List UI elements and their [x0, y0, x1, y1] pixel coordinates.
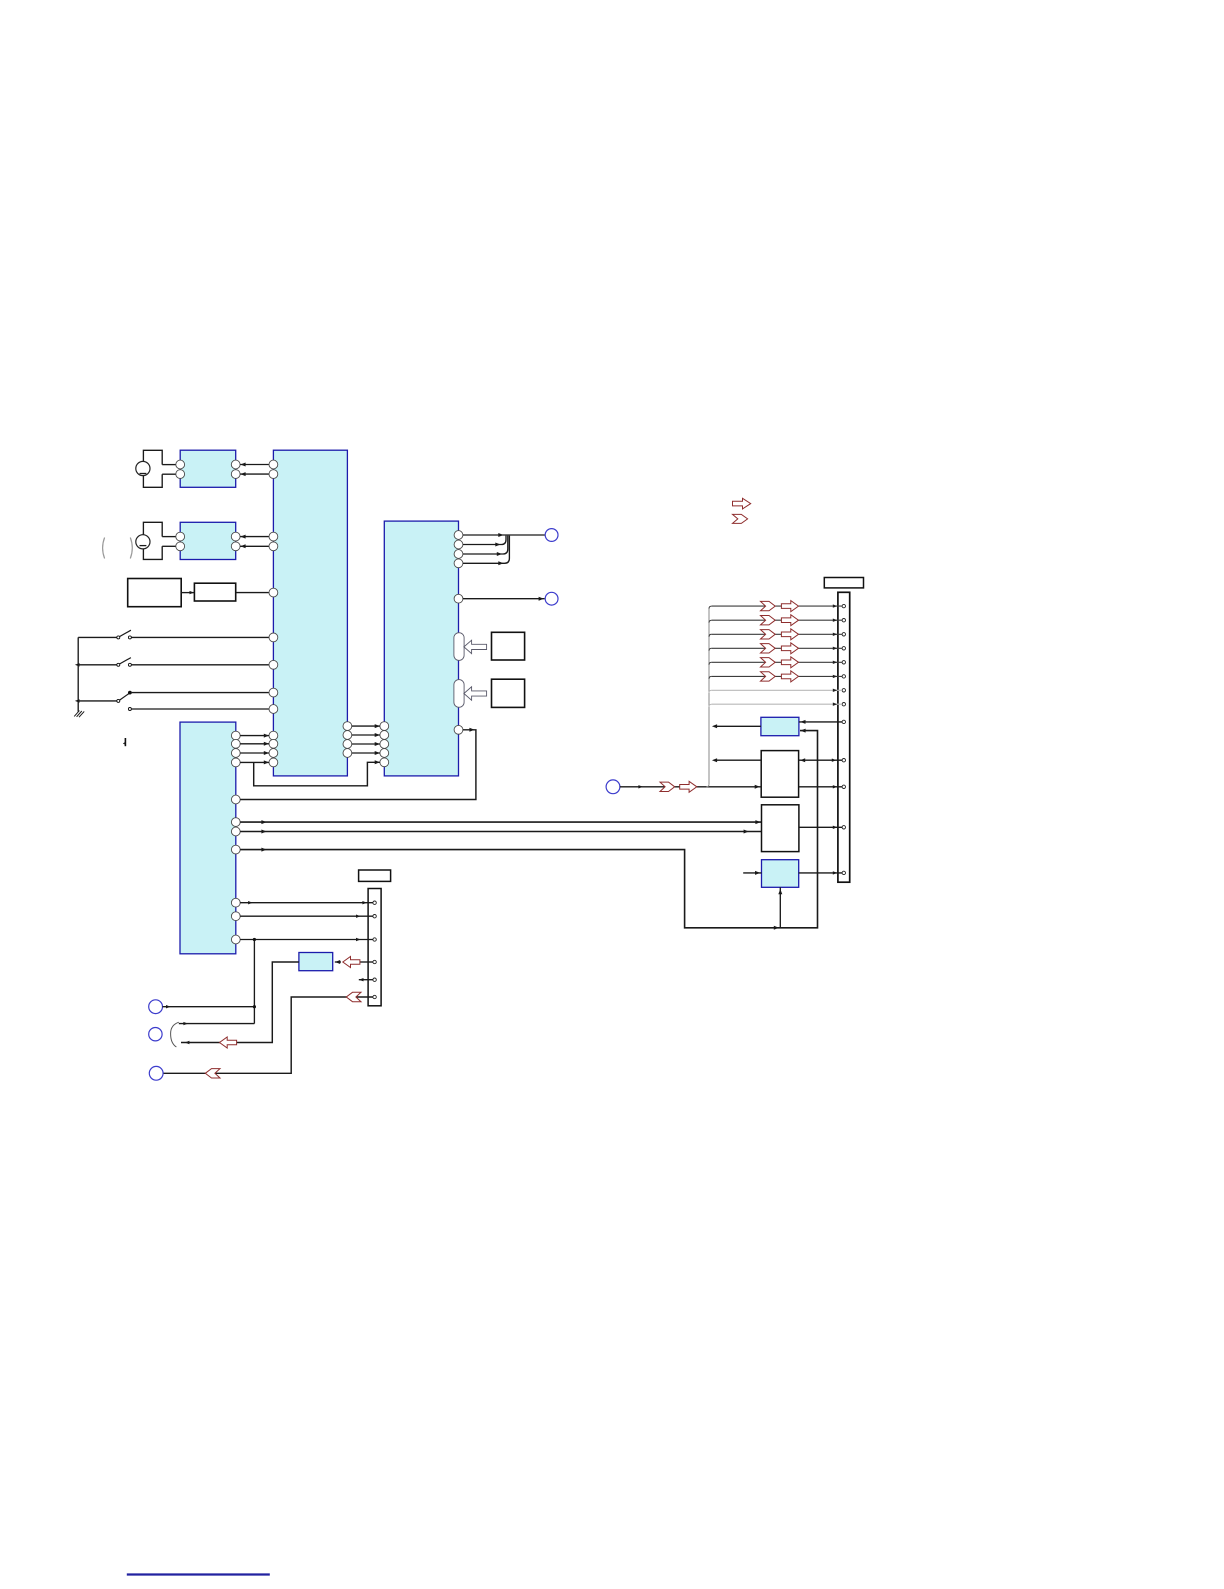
wire S1 to U1 [131, 636, 269, 638]
wire U4 pin5 feedback [254, 760, 380, 786]
level shifter R5 [762, 805, 799, 852]
microphone MK2 [136, 522, 176, 559]
wire bus branch 7 to CN2 [709, 689, 842, 693]
wire U5 to CN1 row3 [240, 938, 373, 941]
IC U4 codec [380, 521, 463, 776]
net flag pair on bus branch 6 [761, 671, 799, 682]
switch S2 [75, 658, 131, 667]
wire S3 throw1 to U1 [132, 692, 270, 694]
wire U1 to U2 line2 [240, 472, 269, 476]
wire switch common bus [77, 637, 79, 711]
net flag on R2 port wire [220, 1037, 237, 1048]
port AOUT1 [545, 529, 558, 542]
net flag on row6 wire [346, 992, 361, 1001]
wire CN1 row6 to port DP3 [163, 997, 372, 1073]
connector CN1 [368, 889, 381, 1006]
wire X1 to X2 [181, 591, 194, 594]
net flag on R2 wire [343, 957, 360, 968]
net flag arrow B [733, 514, 748, 523]
open arrow into pad P2 [464, 687, 487, 700]
wire U5 to U1 line1 [240, 734, 269, 738]
wire R2 to port DP2 [181, 962, 299, 1044]
pad P1 on U4 edge [454, 633, 464, 661]
port VIN [606, 780, 620, 794]
wire U4 output mix line1 [463, 533, 545, 537]
footer rule [127, 1573, 270, 1575]
IC U5 controller [180, 722, 240, 954]
wire U5 to U1 line3 [240, 751, 269, 755]
wire U1 to U2 line1 [240, 463, 269, 467]
wire R5 to CN2 [799, 826, 842, 829]
wire bus branch 1 to CN2 [709, 604, 842, 608]
wire CN1 row5 stub [359, 978, 373, 981]
connector CN2 header [824, 578, 863, 588]
wire CN1 to R2 [335, 960, 373, 964]
wire stub to R6 input [743, 871, 761, 875]
net flag pair on VIN wire [660, 781, 697, 792]
port DP1 [149, 1000, 163, 1014]
wire U1 to U4 bus line4 [352, 751, 380, 755]
wire U5 to CN1 row1 [240, 901, 373, 904]
net flag pair on bus branch 3 [761, 629, 799, 640]
wire U4 output mix line2 [463, 536, 506, 547]
buffer box X2 [194, 583, 235, 601]
bracket at port DP2 [171, 1022, 179, 1047]
regulator R3 [761, 717, 799, 735]
IC U1 main processor [269, 450, 352, 776]
box TP2 [492, 679, 525, 707]
wire bus branch 2 to CN2 [709, 619, 842, 623]
wire R6 to CN2 [799, 871, 842, 874]
wire U5 to U1 line4 [240, 760, 269, 764]
wire DP2 upper to branch [179, 1022, 255, 1025]
connector CN1 header [359, 870, 391, 881]
port AOUT2 [545, 592, 558, 605]
amplifier block U2 [176, 450, 240, 487]
wire U1 to U4 bus line3 [352, 742, 380, 746]
wire control bus vertical [708, 609, 710, 785]
wire U5 to CN1 row2 [240, 915, 373, 918]
net flag arrow A [733, 498, 751, 509]
regulator R2 [299, 953, 333, 971]
wire U4 output mix line4 [463, 536, 509, 566]
wire U4 output mix line3 [463, 536, 508, 556]
wire U4 to port AOUT2 [463, 597, 545, 601]
wire R4 to CN2 lower [799, 785, 842, 788]
ground [74, 711, 84, 718]
wire bus branch 6 to CN2 [709, 675, 842, 679]
amplifier block U3 [176, 522, 240, 559]
wire U5 data3 to R1 rail [240, 729, 817, 930]
wire CN1 row3 branch down [253, 940, 255, 1024]
open arrow into pad P1 [464, 640, 487, 653]
text cursor mark [123, 738, 126, 746]
junction row3 branch [253, 938, 256, 941]
wire U1 to U3 line2 [240, 544, 269, 548]
wire X2 to U1 clock input [236, 592, 269, 594]
wire R4 to CN2 upper [799, 758, 842, 762]
wire bus to R3 enable [712, 724, 761, 728]
net flag pair on bus branch 5 [761, 657, 799, 668]
net flag pair on bus branch 2 [761, 615, 799, 626]
switch S1 [78, 630, 131, 639]
wire U1 to U4 bus line1 [352, 724, 380, 728]
port DP3 [149, 1066, 163, 1080]
port DP2 [149, 1028, 162, 1041]
connector CN2 [838, 592, 850, 882]
wire U5 to U1 line2 [240, 742, 269, 746]
box TP1 [492, 632, 525, 660]
net flag pair on bus branch 1 [761, 601, 799, 612]
wire VIN to R4 [620, 784, 761, 789]
wire R3 to CN2 [799, 720, 842, 724]
wire bus branch 5 to CN2 [709, 661, 842, 665]
regulator R6 [762, 860, 799, 888]
wire S3 throw2 to U1 [132, 708, 270, 710]
wire bus branch 8 to CN2 [709, 703, 842, 707]
oscillator X1 [128, 579, 182, 607]
pad P2 on U4 edge [454, 680, 464, 708]
wire U5 data1 to R3 [240, 820, 761, 824]
wire bus branch 4 to CN2 [709, 647, 842, 651]
wire R6 ground leg [778, 887, 782, 928]
wire bus to R4 input [712, 758, 761, 762]
net flag pair on bus branch 4 [761, 643, 799, 654]
bracket decoration around MK2 [103, 538, 133, 559]
wire bus branch 3 to CN2 [709, 633, 842, 637]
wire U4 to U5 serial [240, 728, 476, 800]
switch S3 SPDT [75, 691, 132, 711]
wire U1 to U4 bus line2 [352, 733, 380, 737]
net flag on DP3 wire [205, 1069, 220, 1078]
microphone MK1 [136, 450, 176, 487]
driver R4 [761, 751, 798, 798]
wire S2 to U1 [131, 664, 269, 666]
wire U5 data2 to R3 [240, 830, 761, 834]
wire U1 to U3 line1 [240, 535, 269, 539]
junction DP1 branch [253, 1005, 256, 1008]
wire DP1 to branch [163, 1005, 255, 1008]
